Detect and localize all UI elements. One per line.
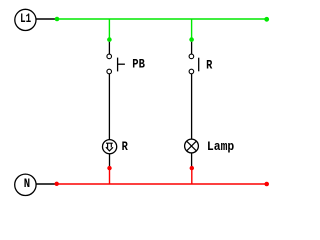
terminal L1 — [15, 9, 36, 30]
relay coil R — [103, 140, 117, 154]
node dot branch2 bottom (red) — [190, 166, 194, 170]
wire top rail (green) — [57, 18, 267, 20]
node dot branch1 bottom (red) — [107, 166, 111, 170]
svg-text:R: R — [122, 139, 128, 154]
lamp — [185, 139, 199, 153]
wire branch1 green stub — [108, 19, 110, 40]
wire branch2 contact to lamp (black) — [191, 74, 193, 139]
wire branch2 green stub — [191, 19, 193, 40]
wire branch2 lamp to dot (black) — [191, 153, 193, 166]
terminal N — [15, 174, 36, 195]
wire branch1 PB to coil (black) — [108, 74, 110, 140]
wire branch1 coil to dot (black) — [109, 154, 111, 167]
wire L1 lead (black) — [36, 18, 56, 20]
relay contact R bar — [198, 58, 200, 72]
svg-text:Lamp: Lamp — [207, 139, 235, 154]
node dot branch1 top (green) — [107, 37, 112, 42]
svg-text:L1: L1 — [20, 11, 31, 26]
node end dot bottom-right (red) — [264, 182, 269, 187]
node junction dot bottom-left (red) — [55, 182, 59, 186]
relay contact R terminal 2 — [189, 69, 194, 74]
wire branch1 red stub — [109, 168, 111, 184]
node end dot top-right (green) — [264, 17, 269, 22]
svg-text:PB: PB — [132, 57, 145, 72]
pushbutton PB terminal 2 — [107, 69, 112, 74]
wire branch2 to contact (black) — [191, 42, 193, 54]
relay contact R terminal 1 — [189, 54, 194, 59]
wire branch1 to PB (black) — [108, 42, 110, 54]
pushbutton PB terminal 1 — [107, 54, 112, 59]
node junction dot top-left (green) — [55, 17, 60, 22]
pushbutton PB actuator — [118, 58, 125, 72]
wire N lead (black) — [36, 183, 55, 185]
svg-text:N: N — [24, 176, 30, 191]
svg-text:R: R — [206, 57, 212, 72]
wire branch2 red stub — [191, 168, 193, 184]
wire bottom rail (red) — [57, 183, 267, 185]
node dot branch2 top (green) — [189, 37, 194, 42]
